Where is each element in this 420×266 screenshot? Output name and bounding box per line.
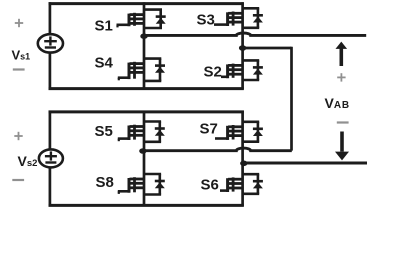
wire: VS1 leads (left side vertical)	[49, 2, 52, 35]
transistor S3	[214, 8, 263, 28]
transistor S2	[221, 60, 263, 80]
wire: cascade link vertical (cell1 B to cell2 A)	[290, 47, 293, 151]
transistor S4	[118, 59, 165, 81]
wire: cell 2 left leg	[143, 111, 146, 207]
svg-text:S7: S7	[200, 121, 218, 138]
polarity − of VAB	[337, 121, 349, 123]
polarity + of VAB	[337, 73, 345, 81]
wire: node B1 to cascade link	[244, 47, 292, 50]
svg-text:S6: S6	[201, 177, 219, 194]
svg-text:S2: S2	[204, 63, 222, 80]
voltage source VS1	[38, 34, 63, 52]
wire: cascade link horizontal to node A2, hops over cell 2 right leg	[145, 148, 292, 151]
wire: cell 1 right leg	[241, 2, 244, 89]
polarity + of VS1	[15, 19, 23, 27]
transistor S7	[215, 122, 263, 142]
wire: node B2 to output rail B	[245, 162, 367, 165]
wire: cell 2 bottom rail	[49, 204, 244, 207]
transistor S6	[220, 174, 263, 194]
transistor S8	[118, 174, 165, 195]
voltage source VS2	[39, 149, 63, 167]
node A1: junction of S1/S4	[140, 33, 147, 39]
svg-text:S8: S8	[96, 174, 114, 191]
svg-text:Vs1: Vs1	[12, 47, 31, 62]
svg-text:S4: S4	[95, 54, 114, 71]
svg-text:Vs2: Vs2	[18, 153, 38, 169]
wire: node A1 to output rail A, hops over right leg	[146, 33, 366, 35]
output arrow up (terminal A)	[336, 42, 348, 66]
svg-text:S3: S3	[197, 12, 215, 29]
node B1: junction of S3/S2	[239, 45, 246, 51]
wire: cell 1 bottom rail	[49, 87, 244, 90]
svg-text:S1: S1	[95, 18, 113, 35]
polarity − of VS1	[13, 68, 25, 70]
node A2: junction of S5/S8	[139, 148, 146, 154]
wire: cell 1 top rail	[49, 2, 244, 5]
wire: cell 2 right leg	[241, 111, 244, 207]
polarity − of VS2	[12, 179, 24, 181]
svg-text:S5: S5	[95, 123, 113, 140]
output arrow down (terminal B)	[335, 132, 349, 161]
polarity + of VS2	[14, 132, 22, 140]
svg-text:VAB: VAB	[325, 95, 350, 111]
wire: cell 1 left leg	[143, 2, 146, 89]
transistor S5	[118, 122, 165, 142]
transistor S1	[117, 10, 166, 28]
wire: cell 2 top rail	[49, 110, 244, 113]
node B2: junction of S7/S6	[240, 161, 247, 167]
wire: VS2 leads (left side vertical)	[49, 111, 52, 151]
